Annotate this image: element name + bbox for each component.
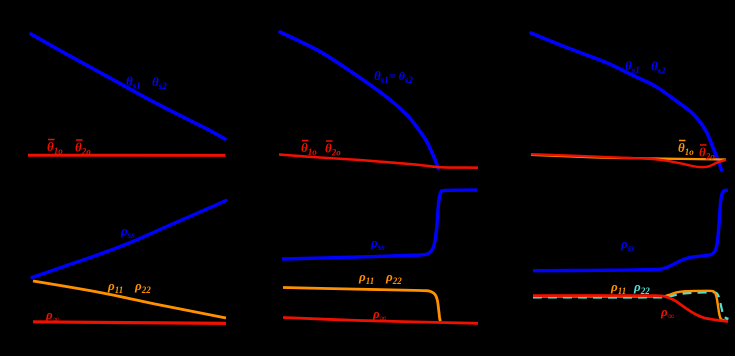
Panel 2 (top-middle) xyxy=(280,32,438,169)
Panel 3 (top-right) xyxy=(531,33,722,170)
Panel 6 (bottom-right) xyxy=(533,292,729,319)
Panel 1 (top-left) xyxy=(31,34,225,139)
Panel 4 (bottom-left) xyxy=(32,201,226,278)
Panel 5 (bottom-middle) xyxy=(282,190,477,259)
